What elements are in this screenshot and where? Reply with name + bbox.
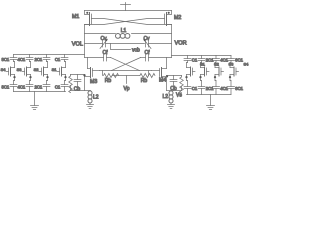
wire top supply rail bbox=[85, 10, 172, 12]
transistor M3 bbox=[85, 58, 100, 86]
ground right tail bbox=[168, 103, 175, 109]
wire right tail rail bbox=[167, 90, 182, 92]
capacitor 8C1 left bottom bbox=[2, 81, 17, 92]
resistor tail right bbox=[180, 76, 184, 93]
varactor Cv left bbox=[100, 36, 108, 49]
capacitor 4C1 left bottom bbox=[18, 81, 33, 92]
svg-text:Cb: Cb bbox=[74, 86, 81, 92]
junction right tail bbox=[166, 75, 168, 77]
wire right source drop bbox=[166, 76, 168, 91]
capacitor 4C1 right bottom bbox=[213, 81, 229, 95]
capacitor 4C1 left top bbox=[18, 55, 33, 63]
wire gate rail bbox=[100, 70, 152, 72]
wire tank top line bbox=[85, 33, 116, 35]
svg-text:8C1: 8C1 bbox=[235, 58, 243, 63]
wire right tail top bbox=[167, 76, 182, 77]
capacitor C1 left top bbox=[55, 55, 68, 63]
svg-text:4C1: 4C1 bbox=[18, 85, 26, 90]
wire right bank bottom rail bbox=[187, 94, 232, 96]
svg-text:2C1: 2C1 bbox=[35, 57, 43, 62]
wire left tail rail bbox=[71, 90, 91, 92]
svg-text:vcb: vcb bbox=[132, 48, 140, 54]
varactor Cv right bbox=[143, 36, 151, 49]
VDD supply symbol bbox=[121, 3, 131, 11]
capacitor C1 right bottom bbox=[184, 81, 198, 95]
ground left bank bbox=[31, 92, 39, 110]
node VOR bbox=[172, 25, 187, 58]
svg-text:C1: C1 bbox=[192, 86, 198, 91]
junction left tail bbox=[83, 74, 85, 76]
svg-text:Vp: Vp bbox=[123, 86, 129, 92]
capacitor 2C1 left bottom bbox=[35, 81, 50, 92]
wire coupling line right bbox=[149, 57, 172, 59]
ground left tail bbox=[87, 103, 94, 109]
svg-text:C1: C1 bbox=[55, 85, 61, 90]
inductor L2 right bbox=[162, 91, 173, 103]
svg-text:S4: S4 bbox=[244, 62, 250, 67]
wire left source drop bbox=[84, 77, 86, 91]
wire left bank top rail bbox=[14, 54, 85, 56]
capacitor Cf right bbox=[145, 50, 151, 61]
node vcb control tap bbox=[111, 44, 141, 54]
svg-text:S4: S4 bbox=[1, 67, 7, 72]
switch transistor S4 right bbox=[229, 62, 249, 81]
wire cross-couple M2 gate to VOL bbox=[85, 19, 165, 25]
capacitor 2C1 left top bbox=[35, 55, 50, 63]
svg-text:C1: C1 bbox=[55, 57, 61, 62]
svg-text:Rb: Rb bbox=[141, 78, 148, 84]
svg-text:C1: C1 bbox=[192, 58, 198, 63]
svg-text:8C1: 8C1 bbox=[235, 86, 243, 91]
wire lower cross left-to-right bbox=[111, 58, 140, 71]
capacitor 8C1 right top bbox=[228, 56, 244, 63]
svg-text:S3: S3 bbox=[17, 67, 23, 72]
wire lower cross right-to-left bbox=[112, 58, 141, 71]
svg-text:8C1: 8C1 bbox=[2, 85, 10, 90]
svg-text:2C1: 2C1 bbox=[35, 85, 43, 90]
svg-text:M3: M3 bbox=[90, 79, 97, 85]
svg-text:L1: L1 bbox=[121, 28, 127, 34]
svg-text:Rb: Rb bbox=[105, 78, 112, 84]
node Vp bias tap bbox=[123, 76, 129, 92]
transistor M4 bbox=[152, 58, 167, 84]
wire right bank top rail bbox=[172, 55, 232, 57]
transistor M2 bbox=[165, 11, 182, 26]
resistor Rb left bbox=[104, 73, 119, 83]
svg-text:4C1: 4C1 bbox=[18, 57, 26, 62]
inductor L1 bbox=[116, 28, 130, 38]
wire cross-couple M1 gate to VOR bbox=[92, 19, 172, 25]
capacitor 2C1 right top bbox=[198, 56, 214, 63]
wire left tail top bbox=[71, 75, 85, 77]
capacitor 2C1 right bottom bbox=[198, 81, 214, 95]
capacitor C1 right top bbox=[184, 56, 198, 63]
svg-text:S1: S1 bbox=[52, 67, 58, 72]
svg-text:M4: M4 bbox=[159, 78, 166, 84]
switch transistor S2 right bbox=[199, 62, 219, 81]
node VOL bbox=[72, 25, 85, 58]
ground right bank bbox=[207, 95, 215, 110]
transistor M1 bbox=[72, 11, 92, 26]
switch transistor S2 left bbox=[34, 62, 49, 81]
wire bias drop right bbox=[148, 71, 150, 76]
resistor Rb right bbox=[140, 73, 155, 83]
svg-text:VOR: VOR bbox=[175, 41, 187, 47]
resistor tail left bbox=[69, 75, 73, 93]
switch transistor S1 right bbox=[185, 62, 205, 81]
wire bias drop left bbox=[102, 71, 104, 76]
capacitor 8C1 right bottom bbox=[228, 81, 244, 95]
capacitor Cf left bbox=[103, 50, 109, 61]
switch transistor S3 right bbox=[214, 62, 234, 81]
svg-text:L2: L2 bbox=[93, 95, 99, 101]
capacitor Cb left bbox=[74, 75, 81, 93]
capacitor 4C1 right top bbox=[213, 56, 229, 63]
wire coupling line left bbox=[85, 57, 104, 59]
switch transistor S4 left bbox=[1, 62, 16, 81]
wire left bank bottom rail bbox=[14, 91, 66, 93]
svg-text:VOL: VOL bbox=[72, 42, 83, 48]
svg-text:8C1: 8C1 bbox=[2, 57, 10, 62]
capacitor 8C1 left top bbox=[2, 55, 17, 63]
capacitor Cb right bbox=[170, 76, 177, 93]
wire bias row bbox=[112, 75, 140, 77]
svg-text:L2: L2 bbox=[162, 94, 168, 100]
svg-text:M2: M2 bbox=[174, 15, 181, 21]
svg-text:M1: M1 bbox=[72, 14, 79, 20]
capacitor C1 left bottom bbox=[55, 81, 68, 92]
switch transistor S1 left bbox=[52, 62, 67, 81]
svg-text:Vs: Vs bbox=[176, 92, 182, 98]
wire varactor line bbox=[85, 43, 103, 45]
inductor L2 left bbox=[88, 91, 99, 103]
switch transistor S3 left bbox=[17, 62, 32, 81]
svg-text:S2: S2 bbox=[34, 67, 40, 72]
